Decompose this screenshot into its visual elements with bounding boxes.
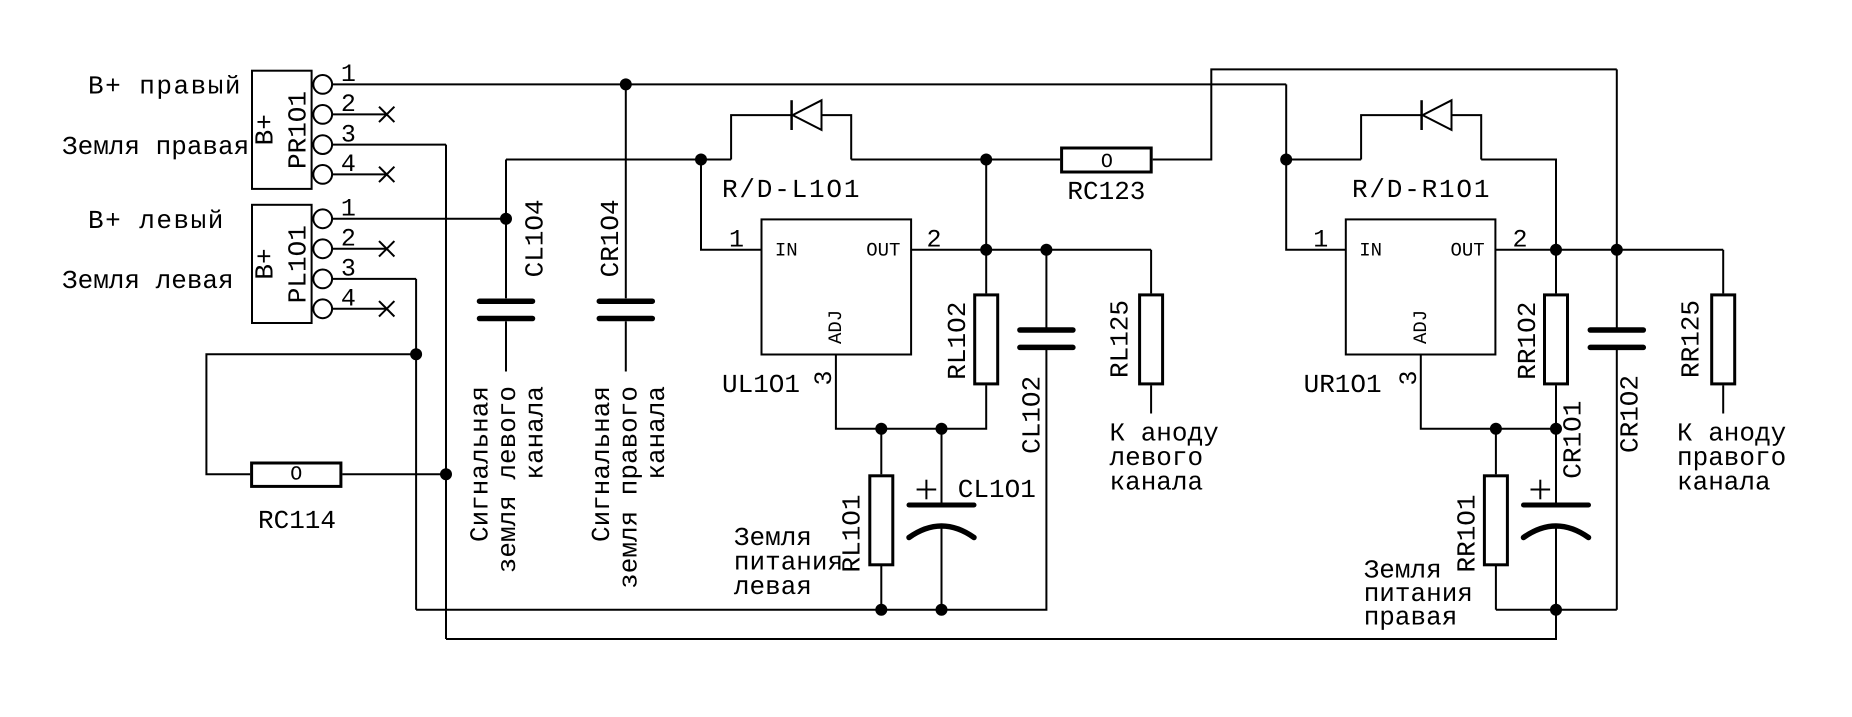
svg-text:1: 1 — [1313, 226, 1328, 255]
svg-text:IN: IN — [1359, 239, 1382, 261]
svg-text:Земля левая: Земля левая — [62, 266, 234, 296]
resistor RR102 body — [1545, 295, 1568, 384]
connector PR101 body — [252, 71, 332, 189]
wire CL104 top lead riser — [505, 160, 507, 299]
svg-text:RC114: RC114 — [258, 506, 336, 536]
wire PL101 pin1 (B+ левый) — [332, 218, 506, 220]
wire RL101 bottom lead — [880, 565, 882, 609]
wire RR102 bottom lead — [1555, 385, 1557, 428]
svg-text:OUT: OUT — [866, 239, 900, 261]
svg-text:OUT: OUT — [1451, 239, 1485, 261]
wire diode R/D-L101 left riser — [731, 115, 792, 159]
node label К аноду правого канала — [1677, 419, 1786, 498]
svg-text:CL1O1: CL1O1 — [958, 475, 1036, 505]
wire RR102 top lead — [1555, 250, 1557, 294]
PR101 pin numbers 1 2 3 4 — [341, 60, 356, 179]
wire RR125 bottom lead open — [1722, 385, 1724, 413]
junction PL101 pin1 / CL104 — [500, 213, 512, 225]
svg-text:ADJ: ADJ — [1410, 310, 1432, 344]
capacitor CR102 plates — [1590, 330, 1643, 347]
wire UR101 IN feed — [1286, 160, 1346, 250]
wire PL101 pin2 no-connect stub — [332, 248, 387, 250]
wire CR102 column top — [1616, 69, 1618, 327]
capacitor CL102 plates — [1020, 330, 1073, 347]
svg-text:RR125: RR125 — [1676, 300, 1706, 378]
svg-text:2: 2 — [1512, 226, 1527, 255]
wire ground right segment — [1496, 609, 1617, 611]
svg-text:PR1O1: PR1O1 — [283, 91, 313, 169]
wire PL101 pin3 (Земля левая) horizontal — [332, 278, 416, 280]
svg-text:3: 3 — [341, 255, 356, 284]
wire UR101 OUT horizontal — [1495, 249, 1723, 251]
no-connect X on PL101 pin4 — [379, 301, 394, 316]
wire PR101 pin4 no-connect stub — [332, 173, 387, 175]
wire RR125 top lead — [1722, 250, 1724, 294]
svg-text:4: 4 — [341, 285, 356, 314]
junction OUT-L / RC123 left — [980, 154, 992, 166]
junction B+ right / IN-R — [1280, 154, 1292, 166]
svg-text:UL1O1: UL1O1 — [722, 370, 800, 400]
wire RL102 top lead — [985, 250, 987, 294]
svg-text:PL1O1: PL1O1 — [283, 225, 313, 303]
wire OUT-L riser — [985, 160, 987, 250]
PL101 pin numbers 1 2 3 4 — [341, 195, 356, 314]
wire ground left (Земля питания левая net) — [416, 350, 1046, 610]
wire PR101 pin3 riser down — [445, 145, 447, 639]
wire PR101 pin3 (Земля правая) horizontal — [332, 144, 446, 146]
capacitor CL101 polarized plates — [909, 480, 974, 538]
svg-text:Земля правая: Земля правая — [62, 132, 249, 162]
wire RL101 top lead — [880, 429, 882, 475]
junction RC114 right / PR101 pin3 riser — [440, 468, 452, 480]
svg-text:RR1O1: RR1O1 — [1452, 494, 1482, 572]
junction ADJ-L / RL101 — [875, 423, 887, 435]
wire OUT-R upper segment — [1481, 160, 1556, 250]
svg-text:3: 3 — [1395, 370, 1424, 385]
wire CL102 top lead — [1045, 250, 1047, 328]
node label Земля питания правая — [1364, 555, 1473, 632]
wire RC114 left loop — [206, 354, 416, 474]
resistor RL125 body — [1140, 295, 1163, 384]
wire diode R/D-L101 right riser — [822, 115, 852, 159]
wire CL104 bottom lead — [505, 321, 507, 371]
wire B+ right rail from PR101 pin1 — [332, 83, 1286, 85]
wire CR101 top lead — [1555, 429, 1557, 504]
diode R/D-R101 symbol — [1422, 100, 1452, 130]
wire diode R/D-R101 left riser — [1361, 115, 1422, 159]
resistor RL102 body — [975, 295, 998, 384]
junction OUT-L / CL102 — [1040, 244, 1052, 256]
wire RR101 bottom lead — [1495, 565, 1497, 609]
diode R/D-L101 symbol — [792, 100, 822, 130]
svg-text:1: 1 — [341, 60, 356, 89]
junction gnd-L / CL101 — [936, 604, 948, 616]
wire ground right long bottom — [446, 610, 1556, 639]
svg-text:Сигнальная: Сигнальная — [466, 386, 496, 542]
wire UL101 IN feed — [701, 160, 762, 250]
resistor RR101 body — [1484, 476, 1507, 565]
wire RC114 right to node — [342, 473, 446, 475]
wire RL125 top lead — [1150, 250, 1152, 294]
capacitor CR101 polarized plates — [1524, 480, 1589, 538]
svg-text:RL1O2: RL1O2 — [943, 302, 973, 380]
svg-text:O: O — [1101, 151, 1113, 174]
svg-text:земля левого: земля левого — [493, 386, 523, 573]
svg-text:O: O — [290, 463, 302, 486]
resistor RR125 body — [1712, 295, 1735, 384]
svg-text:RR1O2: RR1O2 — [1513, 302, 1543, 380]
wire CR104 bottom lead — [625, 321, 627, 371]
connector PL101 body — [252, 205, 332, 323]
wire OUT-L upper net to RC123 — [851, 159, 1060, 161]
svg-text:канала: канала — [1110, 468, 1204, 498]
svg-text:левая: левая — [734, 572, 812, 602]
wire B+ right corner down — [1285, 84, 1287, 159]
svg-text:канала: канала — [1677, 468, 1771, 498]
junction gnd-R / CR101 — [1550, 604, 1562, 616]
svg-text:3: 3 — [810, 370, 839, 385]
svg-text:правая: правая — [1364, 603, 1458, 633]
wire diode R/D-R101 right riser — [1452, 115, 1482, 159]
no-connect X on PR101 pin2 — [379, 107, 394, 122]
no-connect X on PL101 pin2 — [379, 241, 394, 256]
svg-text:В+ правый: В+ правый — [88, 71, 242, 101]
wire CR104 top lead riser — [625, 84, 627, 298]
wire PL101 pin4 no-connect stub — [332, 308, 387, 310]
junction gnd-L / RL101 — [875, 604, 887, 616]
junction OUT-R / CR102 — [1611, 244, 1623, 256]
svg-text:1: 1 — [729, 226, 744, 255]
svg-text:R/D-R1O1: R/D-R1O1 — [1352, 175, 1491, 205]
svg-text:земля правого: земля правого — [615, 386, 645, 589]
node label К аноду левого канала — [1110, 419, 1219, 498]
svg-text:4: 4 — [341, 150, 356, 179]
wire IN-R net horizontal — [1286, 159, 1361, 161]
no-connect X on PR101 pin4 — [379, 167, 394, 182]
resistor RL101 body — [870, 476, 893, 565]
net label Сигнальная земля левого канала (vertical) — [466, 386, 551, 573]
capacitor CL104 plates — [480, 301, 533, 318]
svg-text:ADJ: ADJ — [825, 310, 847, 344]
wire CL101 bottom lead — [941, 528, 943, 610]
svg-text:CR1O1: CR1O1 — [1558, 401, 1588, 479]
wire CL101 top lead — [941, 429, 943, 504]
svg-text:B+: B+ — [250, 248, 280, 279]
svg-text:CL1O2: CL1O2 — [1017, 376, 1047, 454]
svg-text:CR1O4: CR1O4 — [596, 199, 626, 277]
wire RC123 right to riser — [1153, 69, 1617, 159]
resistor RC123 body — [1062, 148, 1152, 172]
svg-text:RL125: RL125 — [1105, 300, 1135, 378]
node label Земля питания левая — [734, 523, 843, 602]
junction IN-L tap — [695, 154, 707, 166]
capacitor CR104 plates — [599, 301, 652, 318]
wire CR101 bottom lead — [1555, 528, 1557, 610]
regulator UR101 box — [1346, 219, 1496, 354]
svg-text:RC123: RC123 — [1067, 177, 1145, 207]
junction RC114 loop / PL101 pin3 riser — [410, 348, 422, 360]
svg-text:канала: канала — [521, 386, 551, 480]
junction OUT-R / RR102 — [1550, 244, 1562, 256]
svg-text:2: 2 — [341, 90, 356, 119]
net label Сигнальная земля правого канала (vertical) — [587, 386, 672, 589]
wire CR102 column bottom — [1616, 350, 1618, 610]
junction ADJ-L / CL101 — [936, 423, 948, 435]
wire IN-L net horizontal — [506, 159, 731, 161]
svg-text:R/D-L1O1: R/D-L1O1 — [722, 175, 861, 205]
svg-text:2: 2 — [341, 225, 356, 254]
svg-text:UR1O1: UR1O1 — [1304, 370, 1382, 400]
svg-text:CR1O2: CR1O2 — [1615, 375, 1645, 453]
svg-text:3: 3 — [341, 120, 356, 149]
svg-text:канала: канала — [642, 386, 672, 480]
svg-text:B+: B+ — [250, 114, 280, 145]
junction OUT-L / RL102 — [980, 244, 992, 256]
wire UR101 ADJ net — [1421, 355, 1556, 429]
resistor RC114 body — [252, 463, 341, 486]
svg-text:1: 1 — [341, 195, 356, 224]
svg-text:IN: IN — [775, 239, 798, 261]
regulator UL101 box — [762, 219, 912, 354]
wire PL101 pin3 riser down — [415, 279, 417, 610]
wire RR101 top lead — [1495, 429, 1497, 475]
junction ADJ-R / RR101 — [1490, 423, 1502, 435]
wire UL101 OUT horizontal — [911, 249, 1151, 251]
wire RL125 bottom lead open — [1150, 385, 1152, 413]
junction ADJ-R / RR102 / CR101 — [1550, 423, 1562, 435]
wire UL101 ADJ net — [836, 355, 986, 429]
wire PR101 pin2 no-connect stub — [332, 113, 387, 115]
svg-text:CL1O4: CL1O4 — [521, 199, 551, 277]
svg-text:В+ левый: В+ левый — [88, 206, 225, 236]
junction CR104 / B+ right rail — [620, 78, 632, 90]
svg-text:Сигнальная: Сигнальная — [587, 386, 617, 542]
svg-text:2: 2 — [926, 226, 941, 255]
